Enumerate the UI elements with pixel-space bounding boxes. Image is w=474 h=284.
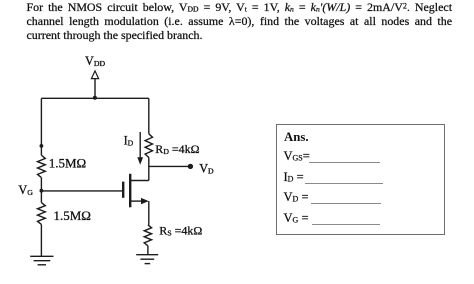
svg-text:VDD: VDD bbox=[85, 54, 105, 68]
svg-text:VD: VD bbox=[199, 162, 214, 176]
svg-text:ID: ID bbox=[124, 133, 134, 147]
svg-text:1.5MΩ: 1.5MΩ bbox=[49, 156, 86, 171]
svg-text:1.5MΩ: 1.5MΩ bbox=[54, 208, 91, 223]
svg-text:VG: VG bbox=[18, 183, 33, 197]
svg-text:RS =4kΩ: RS =4kΩ bbox=[159, 223, 202, 237]
svg-text:RD =4kΩ: RD =4kΩ bbox=[155, 142, 199, 156]
